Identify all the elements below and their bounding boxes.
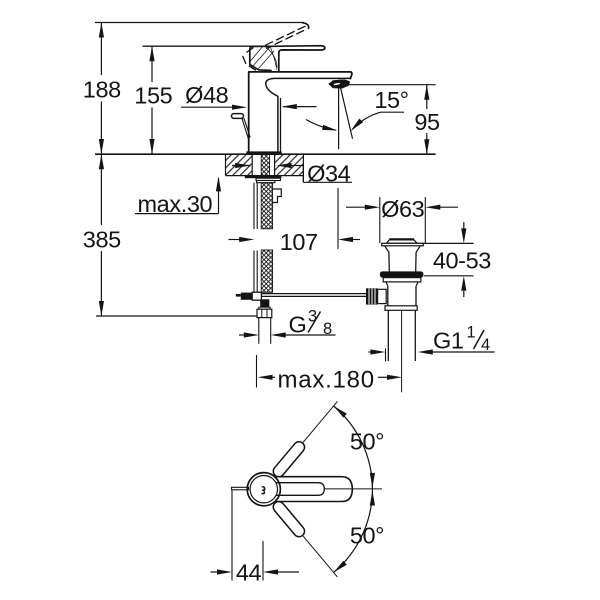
svg-text:50°: 50° bbox=[350, 522, 384, 548]
tailpipe centerline bbox=[401, 310, 403, 392]
water stream vertical line bbox=[338, 89, 340, 149]
dimension max180 arrows and extension lines bbox=[257, 355, 403, 388]
faucet raised lever (dashed) tip hook bbox=[303, 23, 309, 29]
svg-text:3: 3 bbox=[308, 308, 317, 326]
countertop surface line bbox=[95, 153, 436, 155]
drain flange bbox=[382, 243, 424, 246]
dimension 95 top reference line bbox=[347, 84, 436, 86]
rod guide tab bbox=[273, 189, 282, 203]
dimension 188 extension line bbox=[99, 23, 104, 155]
dimension G1 1/4 arrows bbox=[369, 349, 495, 362]
svg-text:G: G bbox=[289, 312, 307, 338]
faucet body inner right line bbox=[280, 99, 282, 152]
dimension 40-53 reference lines and arrows bbox=[418, 222, 474, 297]
faucet body circle outer bbox=[247, 473, 280, 506]
svg-text:4: 4 bbox=[481, 336, 490, 354]
handle centerline bbox=[324, 488, 382, 490]
hose ferrule bbox=[260, 299, 269, 307]
dimension 44 arrows bbox=[211, 571, 218, 573]
spout aerator outlet bbox=[329, 80, 350, 88]
dimension d48 right arrow bbox=[282, 104, 317, 109]
dimension d63 extension lines and arrows bbox=[346, 197, 458, 243]
o-ring seal bbox=[380, 271, 424, 277]
dimension 107 arrows bbox=[229, 237, 361, 242]
faucet spout inner profile bbox=[266, 78, 351, 151]
dimension 95 line bbox=[424, 85, 429, 155]
tailpipe bbox=[387, 310, 389, 361]
dimension d48 leader left arrow bbox=[181, 105, 247, 110]
pop-up drain assembly bbox=[366, 239, 423, 392]
svg-text:Ø48: Ø48 bbox=[185, 82, 229, 108]
svg-text:155: 155 bbox=[134, 82, 172, 108]
label G 3/8 bbox=[289, 308, 333, 339]
dimension 385 line bbox=[99, 154, 104, 316]
dimension 385 bottom reference line bbox=[96, 315, 257, 317]
svg-text:15°: 15° bbox=[374, 87, 408, 113]
countertop cross-section bbox=[226, 154, 304, 182]
faucet handle dome outline bbox=[250, 46, 272, 70]
svg-text:1: 1 bbox=[467, 324, 476, 342]
mounting shank through countertop bbox=[245, 154, 281, 317]
svg-text:Ø63: Ø63 bbox=[381, 196, 425, 222]
swivel arc lower bbox=[334, 489, 373, 572]
hose nut G3/8 bbox=[259, 307, 270, 309]
faucet body outline bbox=[249, 72, 352, 152]
lift rod slanted bbox=[242, 118, 250, 139]
svg-text:107: 107 bbox=[280, 229, 318, 255]
svg-text:G1: G1 bbox=[433, 328, 464, 354]
backnut bbox=[256, 178, 280, 180]
handle dome interior sketch lines bbox=[250, 46, 277, 70]
svg-text:385: 385 bbox=[83, 227, 121, 253]
handle capsule rotated up 50deg bbox=[271, 398, 342, 479]
dimension 44 extension lines bbox=[231, 491, 233, 581]
label G1 1/4 bbox=[433, 324, 490, 355]
tailpipe flange bbox=[385, 306, 417, 311]
drain bell neck bbox=[385, 246, 421, 272]
drain body band bbox=[383, 278, 421, 282]
pull rod stub bbox=[232, 487, 249, 490]
dimension 188 reference top line bbox=[95, 22, 304, 24]
svg-text:188: 188 bbox=[83, 77, 121, 103]
dimension d34 leader bbox=[232, 163, 352, 182]
pop-up actuating rod bbox=[236, 292, 366, 300]
faucet raised lever dashed outline bbox=[243, 26, 305, 70]
washer under counter bbox=[245, 175, 281, 178]
pop-up lift knob bbox=[232, 114, 244, 119]
knurled knob bbox=[366, 288, 378, 304]
taper to pipe bbox=[386, 282, 418, 286]
svg-text:50°: 50° bbox=[350, 428, 384, 454]
grohe logo mark bbox=[261, 486, 265, 494]
dimension 107 right extension line (spout axis) bbox=[337, 188, 339, 249]
dimension G3/8 arrows bbox=[239, 318, 336, 344]
bottom view: handle swivel diagram bbox=[211, 398, 385, 585]
dimension 155 reference line bbox=[143, 45, 277, 47]
handle horizontal outline bbox=[276, 477, 352, 502]
svg-text:40-53: 40-53 bbox=[433, 248, 491, 274]
dimension 155 line bbox=[149, 46, 154, 154]
drain pipe upper bbox=[387, 286, 389, 306]
faucet body circle inner bbox=[250, 476, 277, 503]
swivel arc upper bbox=[334, 406, 373, 489]
threaded shank / flexible hose braid bbox=[261, 183, 272, 229]
svg-text:44: 44 bbox=[236, 559, 262, 585]
svg-text:95: 95 bbox=[414, 109, 440, 135]
faucet lever blade (solid) bbox=[272, 46, 325, 72]
drain plug cap bbox=[387, 239, 418, 243]
faucet base flange bbox=[246, 151, 281, 154]
dimension 15deg leader and arc arrows bbox=[306, 112, 404, 133]
svg-text:max.180: max.180 bbox=[278, 366, 375, 393]
lift rod below counter bbox=[253, 183, 255, 229]
water stream 15deg slanted line bbox=[341, 89, 353, 139]
dimension max30 leader with up arrow bbox=[135, 176, 221, 213]
handle capsule rotated down 50deg bbox=[271, 499, 342, 580]
